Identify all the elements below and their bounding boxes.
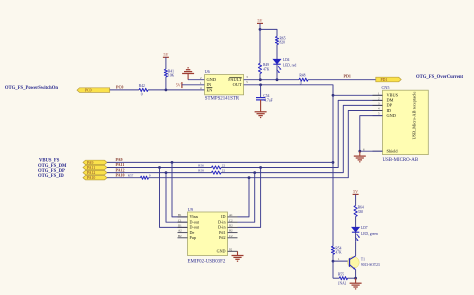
CN5 pin DM (2) <box>373 99 383 101</box>
svg-text:ID: ID <box>221 214 225 219</box>
resistor R41 <box>164 69 167 77</box>
wire R41 to EN net <box>165 77 167 90</box>
wire 5V to U6 IN pin <box>182 84 205 86</box>
svg-text:[NA]: [NA] <box>338 282 346 286</box>
U9 left pin D-out (C1) <box>178 221 188 223</box>
junction 5V tee <box>259 28 262 31</box>
svg-text:C2: C2 <box>229 218 233 222</box>
CN5 pin VBUS (1) <box>373 94 383 96</box>
wire drop DP to U9 D-in pin <box>238 173 255 223</box>
U9 left pin Pup (B2) <box>178 237 188 239</box>
svg-text:5V: 5V <box>176 82 181 87</box>
svg-text:USB-MICRO-AB: USB-MICRO-AB <box>383 158 419 163</box>
svg-text:820: 820 <box>280 41 286 45</box>
svg-text:Pd2: Pd2 <box>219 235 225 240</box>
ground symbol at U9 GND pin <box>237 251 239 255</box>
wire R49 to FAULT net <box>259 74 261 80</box>
svg-text:OUT: OUT <box>233 82 242 87</box>
wire T1 emitter to ground <box>355 270 357 279</box>
svg-text:5V: 5V <box>258 18 263 23</box>
ground symbol at T1 emitter <box>355 278 357 283</box>
wire PA11 row from port to R56 <box>107 167 212 169</box>
wire PA9 row VBUS_FS <box>107 161 333 163</box>
capacitor C54 <box>256 97 265 99</box>
wire PA12 row from R58 to DP corner <box>221 105 383 172</box>
wire CN5 GND pin to ground <box>360 116 383 152</box>
power 5V symbol above R64 <box>353 193 359 195</box>
svg-text:R56: R56 <box>198 163 204 167</box>
svg-text:47K: 47K <box>335 251 342 255</box>
svg-text:R55: R55 <box>338 273 344 277</box>
svg-text:PA9: PA9 <box>87 161 94 165</box>
svg-text:GND: GND <box>217 249 226 254</box>
junction PA12/U9 D-in drop <box>253 171 256 174</box>
junction EN/R41 <box>165 89 168 92</box>
port PA12 <box>83 170 107 174</box>
wire R65 to LED LD4 <box>276 45 278 60</box>
wire LD7 bar to collector wire <box>355 232 357 241</box>
junction FAULT/R49 <box>259 78 262 81</box>
U9 GND pin (D2) <box>228 250 238 252</box>
svg-text:C54: C54 <box>263 94 269 98</box>
wire ground to U6 GND pin <box>188 79 205 81</box>
svg-text:EN: EN <box>207 87 214 92</box>
svg-text:R58: R58 <box>198 168 204 172</box>
svg-text:10K: 10K <box>168 74 175 78</box>
svg-text:PA12: PA12 <box>87 171 95 175</box>
wire T1 collector to LED LD7 <box>355 241 357 256</box>
junction PA11/U9 D-in drop <box>259 166 262 169</box>
U9 right pin ID (A1) <box>228 216 238 218</box>
svg-text:PA11: PA11 <box>87 166 95 170</box>
LED LD4 <box>273 59 280 64</box>
svg-text:GND: GND <box>387 113 396 118</box>
resistor R64 <box>354 206 357 217</box>
wire EN net from R42 to U6 EN pin <box>148 89 205 91</box>
svg-text:PC0: PC0 <box>85 89 92 93</box>
wire 5V to R41 <box>165 57 167 69</box>
ground symbol at U6 GND pin (inverted) <box>182 73 194 75</box>
resistor R58 <box>212 171 222 174</box>
junction PA9/U9 Vbus drop <box>171 161 174 164</box>
svg-text:A2: A2 <box>178 229 182 233</box>
svg-text:22: 22 <box>222 163 226 167</box>
port PD1 <box>376 77 401 82</box>
LED LD7 <box>352 227 359 232</box>
CN5 pin Shield (6) <box>373 150 383 152</box>
svg-text:OTG_FS_ID: OTG_FS_ID <box>38 174 64 179</box>
svg-text:OTG_FS_PowerSwitchOn: OTG_FS_PowerSwitchOn <box>5 86 59 91</box>
wire drop PA12 to U9 D-out pin <box>166 173 188 223</box>
U9 right pin D-in (C2) <box>228 221 238 223</box>
svg-text:Shield: Shield <box>387 149 399 154</box>
svg-text:C2: C2 <box>229 234 233 238</box>
svg-text:PC0: PC0 <box>116 84 123 89</box>
power 5V symbol above R49/R65 <box>257 22 263 24</box>
wire CN5 Shield pin to ground <box>360 150 383 152</box>
resistor R55 <box>339 277 347 280</box>
svg-text:4.7uF: 4.7uF <box>264 99 272 103</box>
svg-text:PD1: PD1 <box>344 73 351 78</box>
wire OUT net from U6 to corner <box>244 85 333 246</box>
junction emitter/R55 <box>354 277 357 280</box>
svg-text:R48: R48 <box>299 73 305 77</box>
resistor R49 <box>258 63 261 73</box>
svg-text:U6: U6 <box>205 69 210 74</box>
wire drop ID to U9 ID pin <box>238 178 250 217</box>
CN5 pin ID (4) <box>373 110 383 112</box>
U9 left pin De (A2) <box>178 232 188 234</box>
wire PA12 row from port to R58 <box>107 172 212 174</box>
svg-text:Vbus: Vbus <box>190 214 199 219</box>
svg-text:5V: 5V <box>353 189 358 194</box>
svg-text:9013-SOT23: 9013-SOT23 <box>361 263 380 267</box>
svg-text:PD1: PD1 <box>381 78 388 82</box>
op-amp U9 body EMIF02-USB03F2 <box>188 212 228 256</box>
wire 5V down to R49 <box>259 29 261 63</box>
ground symbol below C54 <box>260 100 262 112</box>
svg-text:USB_Micro-AB receptacle: USB_Micro-AB receptacle <box>412 92 417 140</box>
svg-text:C1: C1 <box>178 218 182 222</box>
wire drop PA9 to U9 Vbus pin <box>172 162 188 217</box>
wire base node to T1 base <box>333 260 350 262</box>
U9 left pin Vbus (B1) <box>178 216 188 218</box>
wire FAULT net from U6 to R48 <box>244 79 299 81</box>
wire drop PA11 to U9 D-out pin <box>160 168 188 228</box>
resistor R54 <box>331 246 334 254</box>
junction PA10/U9 ID drop <box>248 176 251 179</box>
CN5 pin GND (5) <box>373 115 383 117</box>
wire drop DM to U9 D-in pin <box>238 168 261 228</box>
svg-text:PA10: PA10 <box>87 176 95 180</box>
resistor R65 <box>275 37 278 45</box>
wire R54 to base node <box>332 254 334 261</box>
svg-text:R57: R57 <box>128 174 134 178</box>
svg-text:U9: U9 <box>188 207 193 212</box>
junction GND/Shield <box>358 150 361 153</box>
wire EN net from port PC0 to R42 <box>110 89 139 91</box>
wire LED LD7 to R64 <box>355 217 357 228</box>
connector CN5 body USB-Micro-AB <box>383 90 429 154</box>
junction VBUS/PA9 row <box>332 161 335 164</box>
svg-text:Pup: Pup <box>190 235 196 240</box>
wire PA11 row from R56 to DM corner <box>221 100 383 167</box>
resistor R56 <box>212 166 222 169</box>
CN5 pin DP (3) <box>373 104 383 106</box>
resistor R48 <box>299 78 308 81</box>
svg-text:OTG_FS_OverCurrent: OTG_FS_OverCurrent <box>416 75 463 80</box>
svg-text:B2: B2 <box>178 234 182 238</box>
svg-text:5V: 5V <box>163 52 168 57</box>
U9 right pin Pd2 (C2) <box>228 237 238 239</box>
svg-text:LD7: LD7 <box>361 226 368 230</box>
wire base node down to R55 <box>332 261 334 278</box>
wire C54 to OUT net <box>260 85 262 97</box>
wire VBUS to CN5 VBUS pin <box>333 94 383 96</box>
svg-text:B1: B1 <box>178 213 182 217</box>
port PA10 <box>83 176 107 180</box>
U9 right pin Pd1 (B2) <box>228 232 238 234</box>
wire 5V to R64 <box>355 194 357 205</box>
port PC0 <box>77 88 110 93</box>
junction PA12/U9 drop <box>165 171 168 174</box>
junction base node <box>332 260 335 263</box>
resistor R57 <box>141 176 149 179</box>
svg-text:330: 330 <box>358 210 364 214</box>
wire R55 to emitter node <box>348 277 356 279</box>
port PA11 <box>83 165 107 169</box>
svg-text:EMIF02-USB03F2: EMIF02-USB03F2 <box>188 259 226 264</box>
wire LED LD4 to FAULT net <box>276 64 278 80</box>
svg-text:D1: D1 <box>178 224 182 228</box>
wire tee to R65 branch <box>260 29 277 36</box>
power 5V symbol at U6 IN pin <box>181 82 183 88</box>
svg-text:T1: T1 <box>361 257 365 261</box>
svg-text:A1: A1 <box>229 213 233 217</box>
svg-text:B2: B2 <box>229 229 233 233</box>
port PA9 <box>83 160 107 164</box>
junction OUT/C54 <box>259 83 262 86</box>
svg-text:CN5: CN5 <box>382 85 390 90</box>
wire FAULT net from R48 to port PD1 <box>308 79 376 81</box>
ground symbol at CN5 <box>359 151 361 156</box>
wire 5V down to tee <box>259 23 261 29</box>
op-amp U6 body STMPS2141STR <box>205 75 244 95</box>
transistor T1 9013-SOT23 <box>348 257 360 269</box>
power 5V symbol above R41 <box>163 56 169 58</box>
wire to R55 <box>333 277 339 279</box>
svg-text:0: 0 <box>141 93 143 97</box>
svg-text:LD4: LD4 <box>283 58 290 62</box>
wire PA10 row from R57 to ID corner <box>149 111 383 178</box>
junction FAULT/LED LD4 <box>276 78 279 81</box>
U9 right pin D-in (D2) <box>228 226 238 228</box>
junction VBUS pin <box>332 94 335 97</box>
svg-text:R42: R42 <box>139 84 145 88</box>
svg-text:47K: 47K <box>263 67 270 71</box>
svg-text:D2: D2 <box>229 224 233 228</box>
resistor R42 <box>139 88 148 91</box>
svg-text:22: 22 <box>222 168 226 172</box>
junction PA11/U9 drop <box>158 166 161 169</box>
svg-text:STMPS2141STR: STMPS2141STR <box>205 97 240 102</box>
svg-text:PA10: PA10 <box>116 172 125 177</box>
U9 left pin D-out (D1) <box>178 226 188 228</box>
wire PA10 row from port to R57 <box>107 177 141 179</box>
